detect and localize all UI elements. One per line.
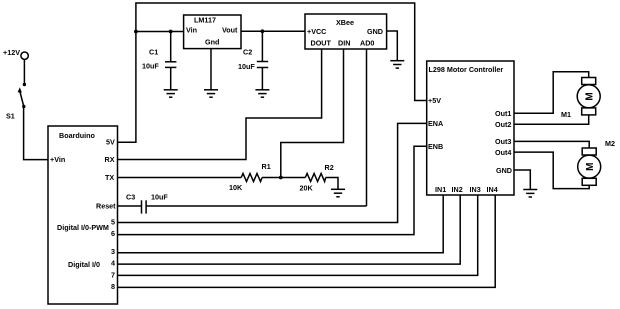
- svg-text:10uF: 10uF: [151, 193, 168, 202]
- wire +12V to switch: [23, 59, 25, 84]
- svg-text:6: 6: [111, 229, 115, 238]
- svg-text:Vin: Vin: [186, 25, 197, 34]
- L298 Motor Controller U4: [427, 61, 514, 195]
- svg-text:ENB: ENB: [428, 142, 443, 151]
- wire L298 GND: [514, 170, 530, 190]
- svg-text:10uF: 10uF: [142, 61, 159, 70]
- svg-text:GND: GND: [367, 27, 383, 36]
- node junction on 5V riser to LM117 Vin: [134, 30, 138, 34]
- svg-text:7: 7: [111, 271, 115, 280]
- svg-text:C1: C1: [149, 48, 158, 57]
- svg-text:Out4: Out4: [495, 148, 511, 157]
- capacitor C2 10uF: [238, 31, 268, 90]
- wire pin8 to IN4: [118, 195, 496, 287]
- wire pin6 to ENB: [118, 146, 427, 234]
- Boarduino U1: [48, 126, 118, 304]
- capacitor C1 10uF: [142, 32, 176, 90]
- resistor R2 20K: [300, 163, 334, 193]
- svg-text:DIN: DIN: [338, 39, 350, 48]
- wire Out1 to M1 top: [514, 72, 589, 114]
- ground (R2): [331, 189, 345, 197]
- svg-text:IN2: IN2: [452, 185, 463, 194]
- op-amp regulator U2 LM117: [184, 15, 241, 49]
- svg-text:IN4: IN4: [487, 185, 498, 194]
- wire XBee GND: [387, 31, 398, 61]
- svg-text:AD0: AD0: [360, 39, 374, 48]
- svg-text:RX: RX: [105, 155, 115, 164]
- svg-text:10K: 10K: [229, 183, 243, 192]
- svg-text:5V: 5V: [106, 138, 115, 147]
- wire pin7 to IN3: [118, 195, 478, 275]
- svg-text:3: 3: [111, 247, 115, 256]
- svg-text:4: 4: [111, 259, 115, 268]
- svg-text:Gnd: Gnd: [205, 38, 219, 47]
- svg-text:Digital I/0-PWM: Digital I/0-PWM: [57, 223, 109, 232]
- wire C3 to AD0: [146, 205, 366, 207]
- svg-text:M: M: [584, 92, 595, 100]
- wire Out3 to M2 top: [514, 141, 589, 148]
- +12V supply terminal: [3, 48, 28, 59]
- wire R1 to R2: [262, 177, 305, 179]
- wire pin4 to IN2: [118, 195, 461, 264]
- svg-text:Out1: Out1: [495, 109, 511, 118]
- wire Vin rail: [136, 31, 184, 33]
- svg-text:M1: M1: [561, 110, 571, 119]
- motor M1: [561, 78, 600, 120]
- svg-text:Out3: Out3: [495, 137, 511, 146]
- ground (XBee): [390, 61, 404, 68]
- svg-text:M2: M2: [605, 139, 615, 148]
- ground (C1): [164, 90, 178, 97]
- svg-text:Out2: Out2: [495, 120, 511, 129]
- svg-text:+Vin: +Vin: [50, 155, 65, 164]
- svg-text:C3: C3: [126, 193, 135, 202]
- svg-text:M: M: [585, 163, 596, 171]
- svg-text:10uF: 10uF: [238, 62, 255, 71]
- svg-text:R2: R2: [325, 163, 334, 172]
- svg-text:+VCC: +VCC: [307, 27, 326, 36]
- svg-text:IN1: IN1: [435, 185, 446, 194]
- wire Vout rail to XBee +VCC: [241, 30, 305, 32]
- wire AD0 down to reset line: [366, 49, 368, 206]
- wire pin3 to IN1: [118, 195, 444, 253]
- svg-text:XBee: XBee: [336, 18, 354, 27]
- svg-text:S1: S1: [6, 112, 15, 121]
- svg-text:TX: TX: [105, 173, 114, 182]
- wire Reset segment: [118, 205, 142, 207]
- svg-text:Reset: Reset: [96, 202, 116, 211]
- wire Out4 to M2 bottom: [514, 152, 589, 189]
- wire Out2 to M1 bottom: [514, 115, 589, 124]
- switch S1: [6, 83, 26, 121]
- node C1 junction: [169, 30, 173, 34]
- svg-text:R1: R1: [262, 162, 271, 171]
- resistor R1 10K: [229, 162, 271, 192]
- svg-text:C2: C2: [243, 48, 252, 57]
- svg-text:IN3: IN3: [470, 185, 481, 194]
- ground (L298): [523, 190, 537, 198]
- ground (C2): [255, 90, 269, 97]
- svg-text:8: 8: [111, 282, 115, 291]
- wire 5V net: Boarduino 5V up over top to L298 +5V: [118, 3, 427, 142]
- svg-text:5: 5: [111, 218, 115, 227]
- svg-text:ENA: ENA: [428, 119, 443, 128]
- svg-text:+5V: +5V: [428, 96, 441, 105]
- svg-text:L298 Motor Controller: L298 Motor Controller: [429, 65, 504, 74]
- motor M2: [578, 139, 615, 185]
- wire pin5 to ENA: [118, 123, 427, 222]
- wire DIN to divider node: [281, 49, 344, 178]
- wire DOUT to RX: [118, 49, 322, 160]
- wire R2 to ground: [326, 178, 338, 190]
- svg-text:GND: GND: [496, 166, 512, 175]
- wire TX line: [118, 177, 242, 179]
- ground (LM117): [204, 90, 218, 97]
- svg-text:Vout: Vout: [222, 25, 238, 34]
- XBee module U3: [305, 14, 387, 49]
- wire LM117 Gnd pin: [210, 49, 212, 90]
- capacitor C3 10uF: [126, 193, 168, 214]
- svg-text:+12V: +12V: [3, 48, 20, 57]
- svg-text:DOUT: DOUT: [311, 39, 332, 48]
- node divider junction: [279, 176, 283, 180]
- node C2 junction: [261, 29, 265, 33]
- svg-text:Boarduino: Boarduino: [59, 131, 96, 140]
- svg-text:Digital I/0: Digital I/0: [68, 260, 100, 269]
- svg-text:LM117: LM117: [194, 16, 216, 25]
- wire switch to +Vin: [24, 107, 48, 160]
- svg-text:20K: 20K: [300, 183, 314, 192]
